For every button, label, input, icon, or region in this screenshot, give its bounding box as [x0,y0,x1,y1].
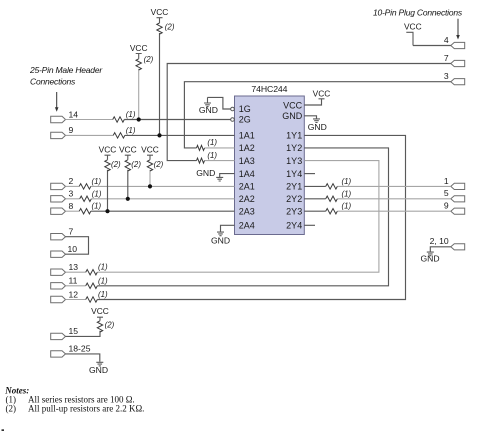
svg-text:1: 1 [444,176,449,186]
right connector number labels [430,35,449,246]
svg-text:(2): (2) [111,160,121,169]
scan speck bottom-left [2,429,5,431]
wire 1A4 to ground [220,174,235,178]
wire pull-up drop to pin3 line [127,170,129,199]
connector pin 15 [51,333,66,339]
wire 2Y2 stub to resistor [304,198,325,200]
notes block [4,385,144,413]
resistor (2) pull-up over pin8 [105,160,110,171]
svg-text:1Y3: 1Y3 [286,156,302,166]
svg-text:2A2: 2A2 [239,194,255,204]
svg-text:VCC: VCC [313,89,331,99]
svg-text:1A1: 1A1 [239,131,255,141]
svg-text:(1): (1) [92,202,102,211]
wire pin15 to pull-up resistor [66,331,101,337]
wire 1A2 resistor to IC [205,147,235,149]
resistor (1) series on 2Y2 line [326,196,338,201]
svg-text:9: 9 [69,125,74,135]
wire pin11 stub [66,285,86,287]
inverter bubble at 1G [231,107,235,111]
wire pin9 resistor to 1A1 [125,134,235,136]
svg-text:7: 7 [444,53,449,63]
svg-text:5: 5 [444,188,449,198]
svg-text:14: 14 [69,109,79,119]
wire joining pin7 and pin10 [66,237,89,255]
wire 1Y4 unconnected stub [304,173,315,175]
svg-text:GND: GND [211,236,230,246]
svg-text:(1): (1) [92,189,102,198]
ground symbol at plug pins 2,10 [427,252,434,256]
svg-text:2Y2: 2Y2 [286,194,302,204]
arrow to connector 14 [55,92,59,112]
svg-text:18-25: 18-25 [69,344,91,354]
IC U1 74HC244 body [235,84,305,235]
wire pull-up VCC1 drop to pin9 line [159,33,161,135]
GND text labels [89,105,440,375]
green note reference labels (1)/(2) [92,23,352,330]
left connector number labels [68,109,91,353]
resistor (1) series on pin11 line [86,283,98,288]
svg-text:GND: GND [308,122,327,132]
resistor (1) series on pin2 line [79,184,91,189]
wire pin11 resistor to 1Y2 [97,148,388,286]
connector pin 11 [51,283,66,289]
wire 2Y3 stub to resistor [304,210,325,212]
svg-text:1Y4: 1Y4 [286,169,302,179]
svg-text:3: 3 [444,71,449,81]
left header connectors (25-pin) [51,116,66,357]
wire pin8 stub [66,210,80,212]
svg-text:2A3: 2A3 [239,207,255,217]
svg-text:(1): (1) [342,189,352,198]
svg-text:VCC: VCC [99,144,117,154]
svg-text:(2): (2) [144,55,154,64]
resistor (2) pull-up at VCC1 [157,23,162,34]
svg-text:1A2: 1A2 [239,143,255,153]
svg-text:VCC: VCC [130,43,148,53]
svg-text:(1): (1) [98,263,108,272]
svg-text:2Y3: 2Y3 [286,207,302,217]
resistor (1) series on pin8 line [79,209,91,214]
wire pin2 stub [66,185,80,187]
IC U1 left pin labels [239,104,255,230]
wire pull-up drop to pin8 line [107,170,109,211]
wire pin2 resistor to 2A1 [91,185,235,187]
resistor (1) series on pin9 line [113,133,125,138]
svg-text:2: 2 [69,176,74,186]
wire 2Y2 resistor to plug pin5 [337,198,451,200]
wire pins18-25 to ground [66,354,100,362]
svg-text:GND: GND [199,105,218,115]
svg-text:2Y4: 2Y4 [286,221,302,231]
wire plug pin7 to 1A3 series resistor [167,64,451,161]
svg-text:(1): (1) [98,290,108,299]
junction dot pin14/VCC2 [137,117,141,121]
IC U1 right pin labels [282,101,303,231]
wire 2Y1 stub to resistor [304,185,325,187]
svg-text:VCC: VCC [91,306,109,316]
resistor (1) series on 1A2 line [197,145,205,150]
wire pin13 resistor to 1Y3 [97,161,379,273]
resistor (2) pull-up over pin3 [125,160,130,171]
svg-text:GND: GND [196,168,215,178]
wire 2Y1 resistor to plug pin1 [337,185,451,187]
svg-text:(1): (1) [207,151,217,160]
svg-text:(2): (2) [165,23,175,32]
wire 1G 2G gate tie to ground [208,97,231,109]
wire pin14 resistor to 2G bubble [124,119,230,121]
svg-text:25-Pin Male Header: 25-Pin Male Header [29,65,103,75]
wire 2Y4 unconnected stub [304,224,315,226]
svg-text:2Y1: 2Y1 [286,182,302,192]
resistor (1) series on pin14 line [113,117,125,122]
resistor (2) pull-up at VCC2 [136,59,141,70]
svg-text:VCC: VCC [141,144,159,154]
junction dot pin3 pull-up [126,197,130,201]
svg-text:1A4: 1A4 [239,169,255,179]
connector pin 13 [51,269,66,275]
VCC symbol at plug pin4 [406,32,413,45]
svg-text:(2): (2) [131,160,141,169]
svg-text:GND: GND [282,111,303,121]
VCC symbol at IC VCC pin [319,98,325,100]
svg-text:8: 8 [69,201,74,211]
wire pin13 stub [66,271,86,273]
wire plug pin4 to VCC [413,45,451,47]
svg-text:2, 10: 2, 10 [430,236,449,246]
svg-text:7: 7 [69,227,74,237]
connector pin 3 [51,196,66,202]
svg-text:2G: 2G [239,115,251,125]
svg-text:All pull-up resistors are 2.2: All pull-up resistors are 2.2 KΩ. [28,404,144,414]
wire 1A3 resistor to IC [205,160,235,162]
svg-text:(2): (2) [105,321,115,330]
svg-text:2A1: 2A1 [239,182,255,192]
svg-text:VCC: VCC [151,7,169,17]
wire pin12 stub [66,299,86,301]
svg-text:74HC244: 74HC244 [251,84,287,94]
svg-text:2A4: 2A4 [239,221,255,231]
connector pin 8 [51,208,66,214]
svg-text:1G: 1G [239,104,251,114]
svg-text:3: 3 [69,189,74,199]
svg-text:(1): (1) [342,202,352,211]
svg-text:(2): (2) [154,160,164,169]
resistor (1) series on 2Y1 line [326,184,338,189]
svg-text:VCC: VCC [283,101,303,111]
svg-text:1A3: 1A3 [239,156,255,166]
resistor (2) pull-up on pin15 [97,321,102,332]
svg-text:VCC: VCC [119,144,137,154]
connector plug pin 3 [451,79,465,85]
connector plug pin 5 [451,196,465,202]
junction dot pin2 pull-up [148,184,152,188]
connector pins 18-25 [51,351,66,357]
wire 2A4 to ground [221,225,235,232]
VCC symbol above pull-up over pin3 [125,155,131,160]
svg-text:(1): (1) [98,276,108,285]
wire pin9 stub to series resistor [66,134,114,136]
wire pin3 stub [66,198,80,200]
svg-text:GND: GND [89,365,108,375]
VCC text labels [91,7,421,316]
connector plug pins 2,10 [451,244,465,250]
wire plug pin3 to 1A2 series resistor [184,82,450,148]
wire pin8 resistor to 2A3 [91,210,235,212]
connector pin 7 [51,234,66,240]
ground symbol for 1G2G tie [204,97,211,106]
ground symbol at 2A4 [217,232,224,236]
connector plug pin 4 [451,42,465,48]
connector pin 12 [51,296,66,302]
arrow to connector 4 [456,19,460,40]
connector pin 14 [51,116,66,122]
svg-text:VCC: VCC [404,22,422,32]
svg-text:1Y1: 1Y1 [286,131,302,141]
junction dot pin8 pull-up [105,209,109,213]
VCC symbol above pull-up VCC1 [157,18,163,23]
svg-text:15: 15 [69,326,79,336]
resistor (1) series on pin12 line [86,297,98,302]
svg-text:GND: GND [420,254,439,264]
VCC symbol above pull-up over pin8 [105,155,111,160]
svg-text:(1): (1) [342,177,352,186]
svg-text:(1): (1) [126,110,136,119]
inverter bubble at 2G [231,118,235,122]
ground symbol at pins18-25 [96,362,103,366]
connector plug pin 7 [451,60,465,66]
connector pin 10 [51,251,66,257]
wire 2Y3 resistor to plug pin9 [337,210,451,212]
connector pin 2 [51,183,66,189]
wire IC GND pin stub [304,116,316,119]
svg-text:10-Pin Plug Connections: 10-Pin Plug Connections [373,8,463,18]
wire plug pins 2,10 to ground [430,247,451,252]
resistor (1) series on pin3 line [80,196,92,201]
wire pull-up drop to pin2 line [149,170,151,187]
svg-text:10: 10 [68,244,78,254]
connector plug pin 9 [451,208,465,214]
svg-text:12: 12 [69,289,79,299]
wire pin14 stub to series resistor [66,119,113,121]
svg-text:11: 11 [69,276,78,286]
resistor (1) series on pin13 line [86,270,98,275]
VCC symbol above pull-up over pin2 [147,155,153,160]
svg-text:1Y2: 1Y2 [286,143,302,153]
label: 25-Pin Male Header Connections [29,65,103,87]
svg-text:13: 13 [69,262,79,272]
ground symbol at 1A4 [216,177,223,181]
wire VCC to IC VCC pin [304,99,321,105]
resistor (1) series on 2Y3 line [326,209,338,214]
right plug connectors (10-pin) [451,42,465,250]
VCC symbol above pull-up VCC2 [136,54,142,59]
svg-text:9: 9 [444,201,449,211]
resistor (1) series on 1A3 line [197,158,205,163]
svg-text:(1): (1) [92,177,102,186]
ground symbol at IC GND pin [313,119,320,123]
connector plug pin 1 [451,183,465,189]
resistor (2) pull-up over pin2 [147,160,152,171]
wire pin3 resistor to 2A2 [91,198,234,200]
svg-text:(1): (1) [207,138,217,147]
wire pin12 resistor to 1Y1 [97,135,405,299]
svg-text:(2): (2) [6,404,17,414]
VCC symbol above pin15 pull-up [97,317,103,321]
svg-text:(1): (1) [126,126,136,135]
junction dot pin9/VCC1 [157,133,161,137]
svg-text:4: 4 [444,35,449,45]
connector pin 9 [51,132,66,138]
wire pull-up VCC2 drop to pin14 line [138,69,140,120]
svg-text:Connections: Connections [30,77,76,87]
